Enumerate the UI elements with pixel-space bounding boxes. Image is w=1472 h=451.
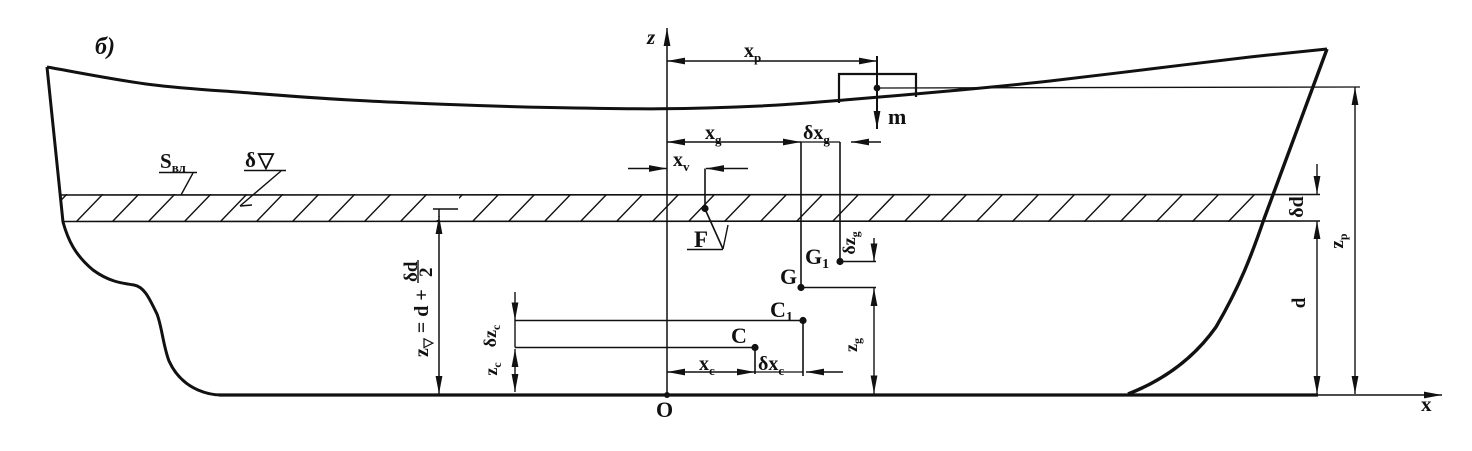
C1 horizontal line [515,320,800,322]
hatched waterline band top line [59,194,1320,197]
hatching [40,194,1255,222]
z_v dimension tick and white gap [433,196,459,220]
F leader flag [705,209,723,249]
point m dot [874,85,881,92]
z_p dimension [1354,87,1356,394]
x_p dimension [667,60,877,62]
svg-text:d: d [1289,297,1310,308]
Svl leader [181,173,193,195]
delta z_g dimension [873,238,875,262]
G vertical extension [800,142,802,287]
thin deck reference line to z_p [877,87,1360,88]
delta-nabla leader [240,171,281,206]
F vertical line [704,169,706,209]
z axis [666,28,668,395]
x_v dimension [628,168,667,170]
m force line [876,56,878,129]
deck sheer line [47,49,1327,109]
point G1 dot [836,258,843,265]
point G dot [797,284,804,291]
baseline (ship bottom, thick) [219,393,1318,396]
C horizontal line [515,347,752,349]
z_c dimension [514,349,516,392]
x_c dimension [667,371,755,373]
x axis thin with arrow [1318,394,1442,396]
svg-text:δ▽: δ▽ [245,148,275,172]
svg-text:C: C [731,323,747,348]
C1 vertical to x_c line [802,321,804,377]
svg-text:m: m [888,104,906,129]
point F dot [701,205,708,212]
left hull edge (stern contour) [47,67,221,395]
z_v dimension line [438,209,440,217]
svg-text:z: z [646,25,656,49]
d dimension with shared up arrow [1316,221,1318,394]
G1 horizontal line [840,261,876,263]
z_v label with fraction [401,260,437,357]
bow stem line [1128,49,1327,394]
svg-text:x: x [1421,392,1432,416]
svg-text:G: G [780,264,797,289]
C vertical to x_c line [754,348,756,375]
point C dot [751,344,758,351]
G horizontal line [801,287,876,289]
x_g dimension [667,141,801,143]
point C1 dot [799,317,806,324]
svg-text:F: F [694,227,708,252]
svg-text:O: O [656,397,673,422]
svg-text:2: 2 [416,268,437,278]
svg-text:δd: δd [1286,196,1308,218]
svg-text:б): б) [95,34,115,60]
delta d dimension upper arrow [1316,164,1318,194]
origin dot [664,392,670,398]
z_g dimension [873,288,875,394]
hatched waterline band bottom line [62,220,1320,223]
weight box on deck [839,74,916,103]
delta z_c dimension [514,292,516,321]
G1 vertical extension [839,142,841,261]
